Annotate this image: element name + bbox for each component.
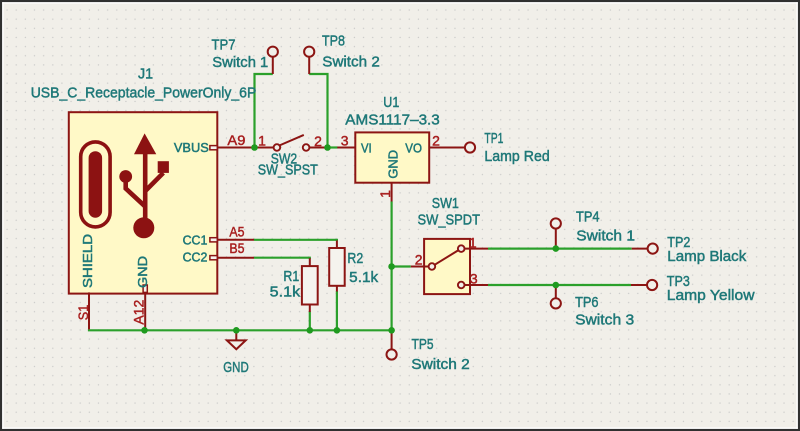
svg-text:Switch 1: Switch 1	[576, 228, 635, 244]
svg-text:TP7: TP7	[212, 38, 236, 54]
svg-text:1: 1	[377, 190, 393, 198]
svg-text:Switch 2: Switch 2	[411, 357, 470, 373]
svg-text:5.1k: 5.1k	[349, 270, 379, 286]
svg-text:Lamp Black: Lamp Black	[667, 249, 747, 265]
svg-text:A5: A5	[229, 224, 244, 240]
svg-text:2: 2	[432, 132, 440, 148]
svg-text:A12: A12	[131, 299, 147, 324]
svg-text:1: 1	[258, 133, 266, 149]
svg-text:3: 3	[470, 271, 478, 287]
svg-text:USB_C_Receptacle_PowerOnly_6P: USB_C_Receptacle_PowerOnly_6P	[31, 85, 257, 101]
svg-text:TP6: TP6	[575, 295, 598, 311]
svg-text:Switch 3: Switch 3	[575, 313, 634, 329]
svg-text:VO: VO	[405, 141, 422, 156]
svg-text:GND: GND	[385, 150, 400, 179]
svg-text:5.1k: 5.1k	[270, 284, 301, 300]
svg-text:J1: J1	[138, 66, 153, 82]
svg-text:VI: VI	[361, 141, 372, 156]
svg-text:R1: R1	[283, 269, 299, 285]
svg-text:VBUS: VBUS	[174, 140, 209, 155]
svg-text:CC1: CC1	[183, 233, 208, 248]
svg-text:CC2: CC2	[183, 250, 208, 265]
svg-text:Switch 2: Switch 2	[322, 54, 380, 70]
svg-text:Lamp Red: Lamp Red	[484, 149, 549, 165]
svg-text:TP8: TP8	[322, 34, 345, 50]
svg-text:SW_SPDT: SW_SPDT	[418, 212, 481, 228]
svg-text:TP5: TP5	[412, 337, 434, 353]
svg-text:SW_SPST: SW_SPST	[258, 162, 318, 178]
svg-text:AMS1117–3.3: AMS1117–3.3	[345, 112, 440, 128]
svg-text:A9: A9	[227, 132, 245, 148]
svg-text:GND: GND	[135, 256, 150, 288]
svg-text:2: 2	[314, 133, 322, 149]
svg-text:TP1: TP1	[484, 131, 503, 147]
svg-text:U1: U1	[383, 95, 399, 111]
svg-text:SHIELD: SHIELD	[80, 234, 95, 288]
svg-text:TP4: TP4	[576, 209, 600, 225]
svg-text:3: 3	[341, 132, 349, 148]
svg-text:R2: R2	[347, 251, 363, 267]
svg-text:1: 1	[469, 235, 477, 251]
svg-text:2: 2	[415, 252, 423, 268]
svg-text:SW1: SW1	[432, 196, 459, 212]
svg-text:B5: B5	[229, 240, 244, 256]
svg-text:Switch 1: Switch 1	[212, 55, 268, 71]
svg-text:GND: GND	[223, 360, 249, 376]
svg-text:S1: S1	[75, 305, 91, 321]
svg-text:Lamp Yellow: Lamp Yellow	[667, 288, 755, 304]
